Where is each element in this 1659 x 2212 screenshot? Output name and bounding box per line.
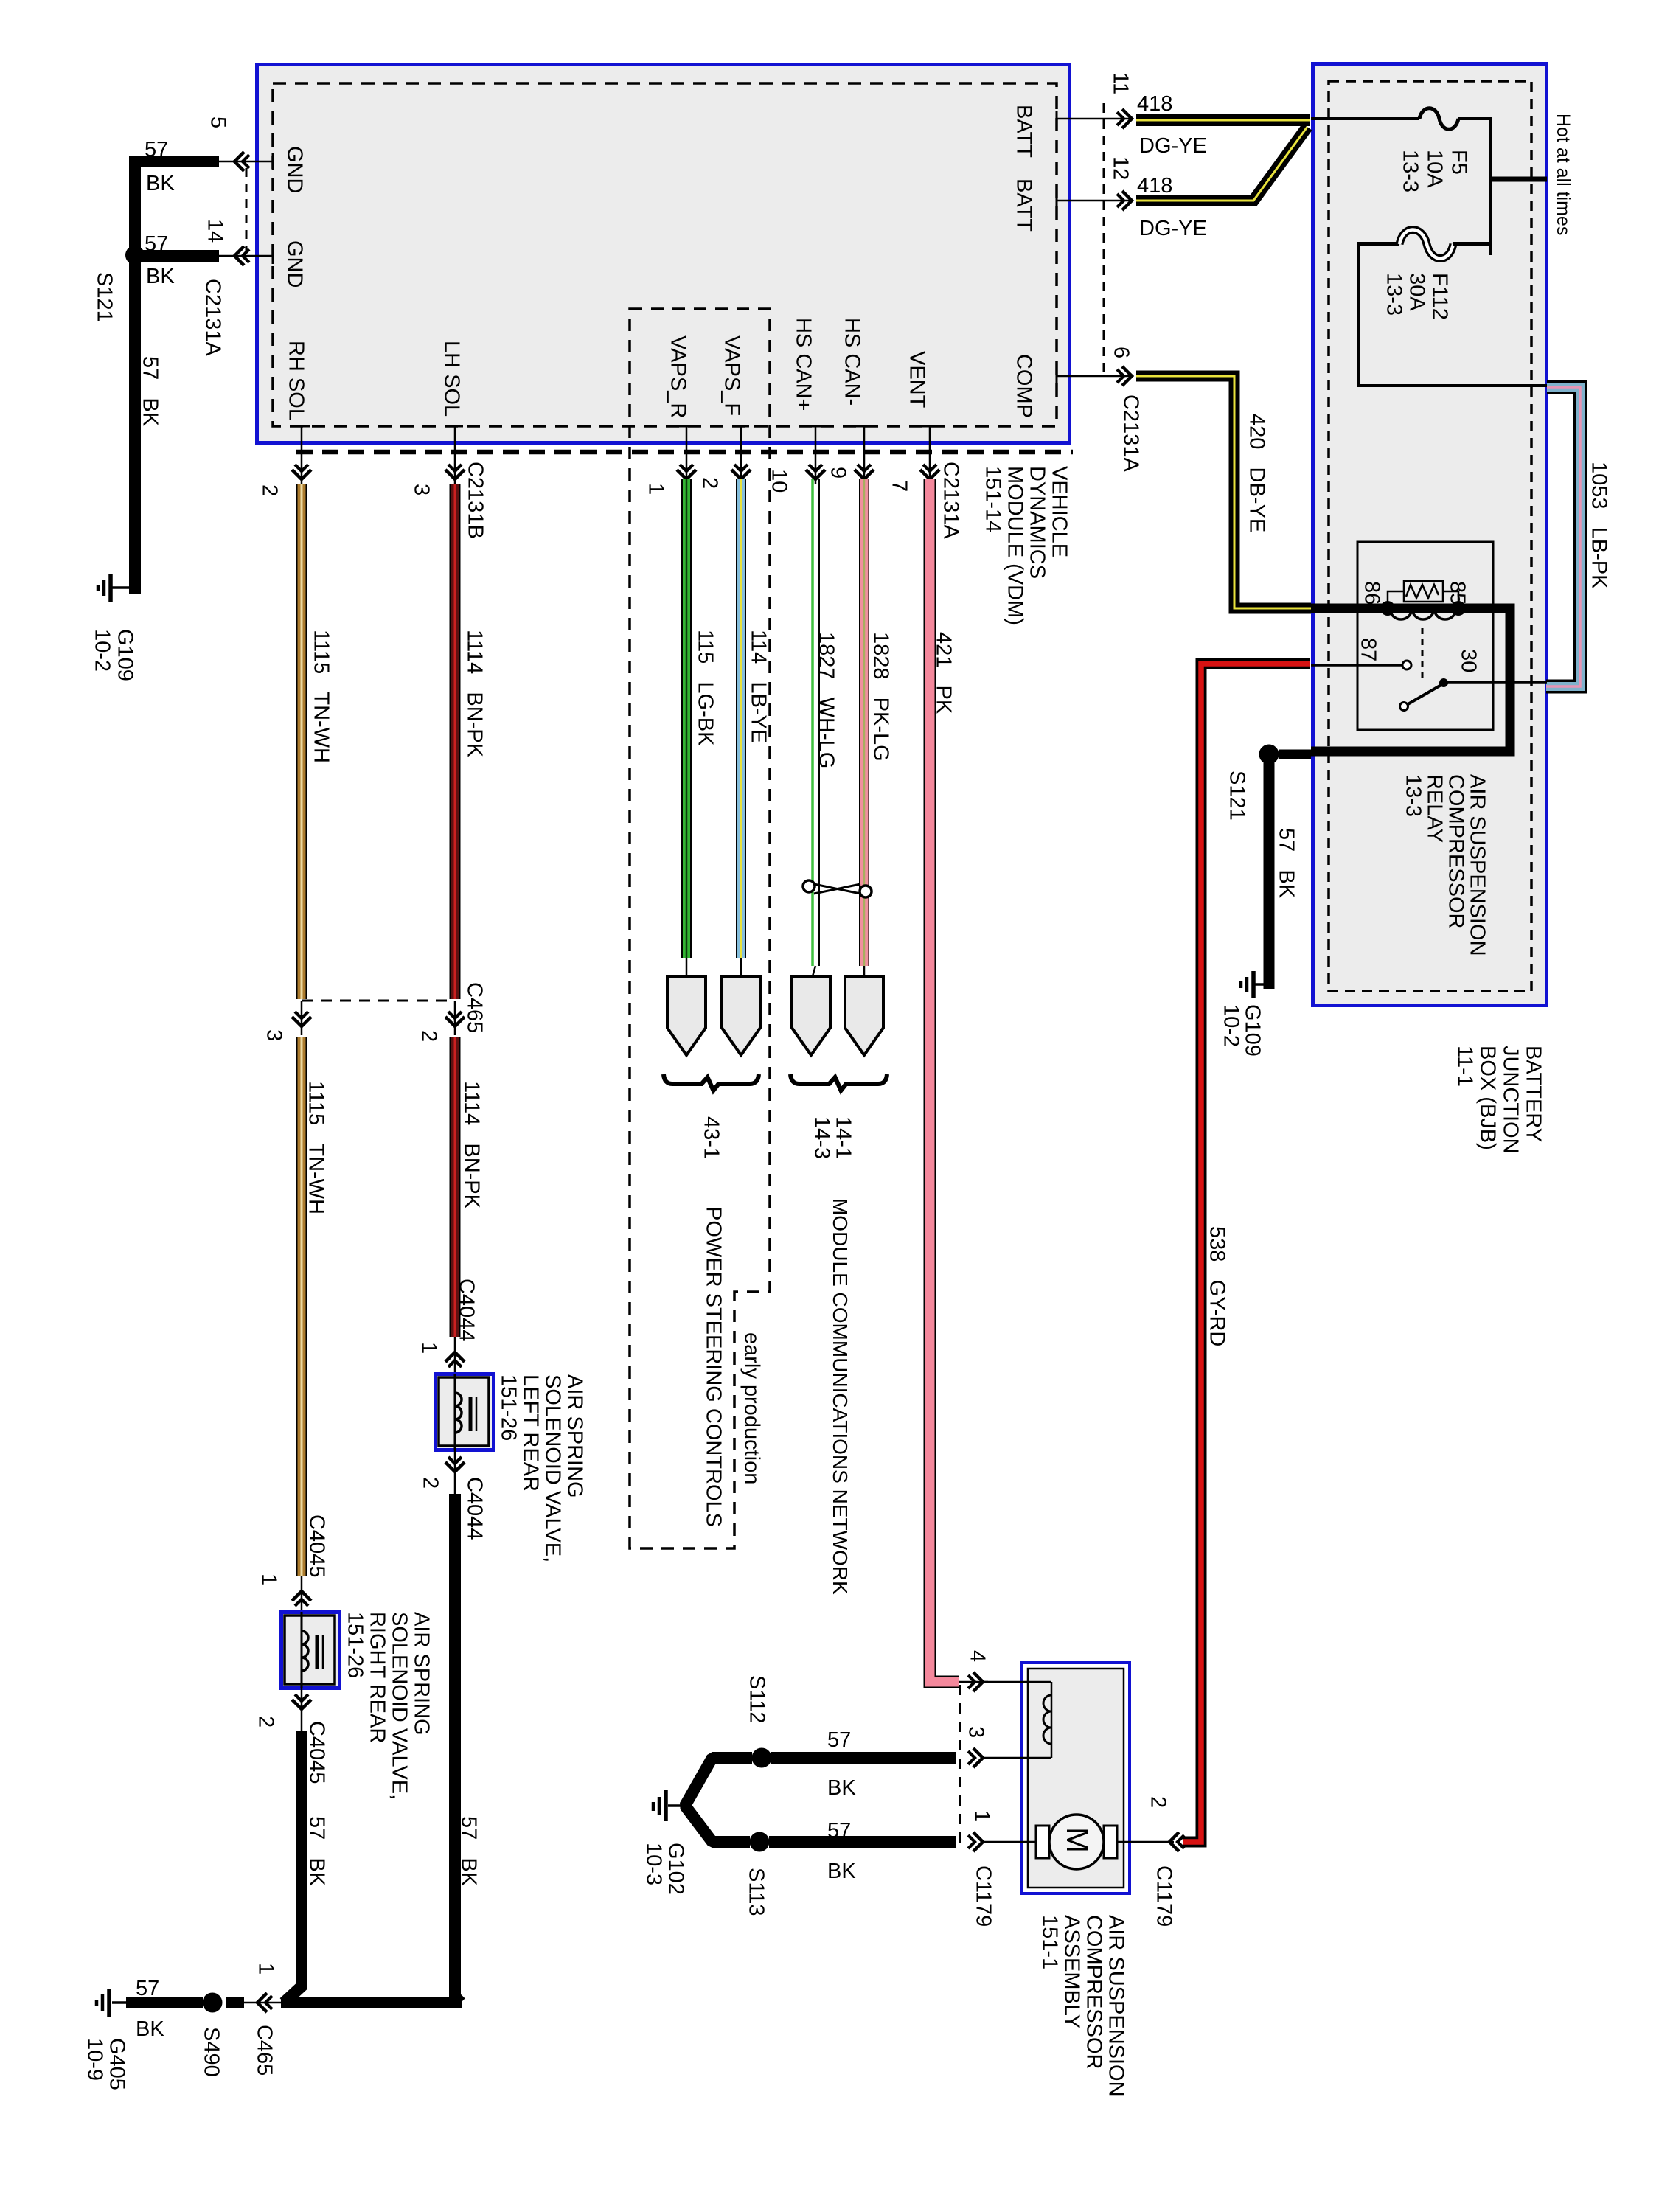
wire 1053 LB-PK xyxy=(1546,387,1611,686)
fuse F112 30A xyxy=(1359,230,1491,320)
svg-text:538 GY-RD: 538 GY-RD xyxy=(1206,1226,1229,1346)
terminal VAPS_F xyxy=(740,958,742,976)
module VDM box (Vehicle Dynamics Module) xyxy=(257,65,1070,443)
wire 57 BK from pin 5 xyxy=(135,161,219,255)
svg-text:1827 WH-LG: 1827 WH-LG xyxy=(815,632,838,768)
svg-text:BATT: BATT xyxy=(1012,105,1036,158)
svg-text:3: 3 xyxy=(410,484,434,495)
svg-text:DG-YE: DG-YE xyxy=(1139,134,1207,158)
svg-text:3: 3 xyxy=(964,1726,988,1738)
svg-text:4: 4 xyxy=(966,1650,990,1662)
svg-text:C1179: C1179 xyxy=(1152,1865,1176,1927)
svg-text:57: 57 xyxy=(145,138,168,161)
svg-text:BK: BK xyxy=(136,2017,164,2041)
svg-text:30: 30 xyxy=(1457,649,1481,672)
svg-text:S121: S121 xyxy=(1225,771,1249,821)
wire from F112 to 1053 xyxy=(1359,242,1547,386)
svg-text:1: 1 xyxy=(970,1810,994,1822)
connector C465 arrow at S490 xyxy=(244,1963,281,2076)
svg-text:BATT: BATT xyxy=(1012,178,1036,232)
svg-text:C2131B: C2131B xyxy=(464,462,487,539)
svg-text:2: 2 xyxy=(1147,1796,1170,1808)
ground G109 (BJB) xyxy=(1220,971,1265,1057)
svg-text:1: 1 xyxy=(257,1573,281,1585)
svg-text:14: 14 xyxy=(204,219,227,243)
wire 57 BK horizontal to S490 xyxy=(281,1997,462,2008)
wire 420 DB-YE from COMP to relay xyxy=(1136,376,1311,608)
svg-text:2: 2 xyxy=(419,1477,442,1489)
terminal VAPS_R xyxy=(686,958,688,976)
wire 538 GY-RD from relay 87 to compressor xyxy=(1183,664,1310,1842)
splice S121 at BJB xyxy=(1225,745,1311,821)
splice S490 xyxy=(226,1997,244,2008)
connector C2131A dashed segment at BATT pins xyxy=(1103,103,1105,376)
bracket 43-1 xyxy=(664,1074,759,1091)
connector C4045 pin 1 arrow xyxy=(257,1514,329,1612)
svg-text:1053 LB-PK: 1053 LB-PK xyxy=(1587,462,1611,589)
svg-text:12: 12 xyxy=(1109,156,1133,180)
svg-text:5: 5 xyxy=(206,116,230,128)
svg-text:1115 TN-WH: 1115 TN-WH xyxy=(305,1081,328,1214)
svg-text:S113: S113 xyxy=(745,1868,768,1916)
wire to hot bus xyxy=(1489,117,1492,255)
connector C1179 pin 2 arrow xyxy=(1117,1796,1184,1927)
pin 3 LH SOL stub + arrow xyxy=(410,426,487,539)
connector C1179 pin 3 arrow + wire 57 BK to S112 xyxy=(771,1726,1051,1800)
svg-text:VAPS_F: VAPS_F xyxy=(720,335,744,416)
bracket 14-1 14-3 xyxy=(790,1074,887,1091)
svg-text:87: 87 xyxy=(1357,638,1380,661)
wire 114 LB-YE xyxy=(736,479,746,958)
connector C2131A dashed segment at GND pins xyxy=(246,168,248,251)
wire 418 DG-YE pin 11 xyxy=(1136,92,1310,158)
svg-text:57 BK: 57 BK xyxy=(139,356,162,427)
wire 1828 PK-LG xyxy=(859,479,869,966)
svg-text:C4045: C4045 xyxy=(305,1514,329,1577)
svg-text:11: 11 xyxy=(1109,72,1133,94)
svg-text:9: 9 xyxy=(827,467,850,479)
svg-text:1114 BN-PK: 1114 BN-PK xyxy=(463,630,487,758)
svg-text:VAPS_R: VAPS_R xyxy=(667,335,690,418)
wire 57 BK from left rear valve xyxy=(455,1494,461,2003)
svg-text:C4044: C4044 xyxy=(455,1279,479,1341)
svg-text:57: 57 xyxy=(136,1977,159,2000)
relay coil xyxy=(1360,581,1470,619)
svg-text:421 PK: 421 PK xyxy=(932,632,956,714)
connector C1179 dashed line xyxy=(959,1685,961,1845)
svg-text:C4045: C4045 xyxy=(305,1721,329,1784)
svg-text:85: 85 xyxy=(1446,581,1470,605)
svg-text:418: 418 xyxy=(1137,174,1172,198)
svg-text:57: 57 xyxy=(145,232,168,256)
pin 6 COMP stub + arrow xyxy=(1057,347,1143,472)
svg-text:S121: S121 xyxy=(93,272,116,322)
ground G109 xyxy=(91,574,137,681)
wire 1114 BN-PK lower xyxy=(450,1037,461,1337)
VDM pin labels xyxy=(283,105,1036,420)
svg-text:C2131A: C2131A xyxy=(939,462,963,539)
terminal HS CAN+ xyxy=(813,966,815,976)
svg-text:114 LB-YE: 114 LB-YE xyxy=(747,630,771,743)
svg-text:2: 2 xyxy=(254,1716,278,1728)
twisted pair symbol xyxy=(803,880,872,897)
connector C465 dashed line + arrows xyxy=(262,982,487,1042)
pin 12 BATT stub + arrow xyxy=(1057,156,1133,210)
wire 57 BK to G109 (BJB) xyxy=(1264,754,1275,989)
svg-text:BK: BK xyxy=(827,1776,856,1800)
box BJB (Battery Junction Box) xyxy=(1313,64,1547,1006)
connector C1179 pin 4 arrow xyxy=(959,1650,990,1691)
svg-text:1115 TN-WH: 1115 TN-WH xyxy=(310,630,333,763)
terminal HS CAN- xyxy=(863,966,866,976)
svg-text:BK: BK xyxy=(827,1860,856,1883)
svg-text:57 BK: 57 BK xyxy=(457,1816,481,1887)
wire 1827 WH-LG xyxy=(813,479,819,966)
relay coil feed wire xyxy=(1311,608,1510,751)
pin 14 GND wire stub + arrow xyxy=(204,219,273,265)
svg-text:S112: S112 xyxy=(745,1675,769,1724)
svg-text:C2131A: C2131A xyxy=(201,279,225,356)
pin 1 VAPS_R stub + arrow xyxy=(644,426,696,495)
wire 57 BK from right rear valve xyxy=(284,1731,302,2003)
wire 1115 TN-WH lower xyxy=(296,1037,307,1576)
svg-text:C465: C465 xyxy=(253,2025,276,2076)
svg-text:1828 PK-LG: 1828 PK-LG xyxy=(869,632,893,762)
svg-text:2: 2 xyxy=(417,1030,441,1042)
splice S112 xyxy=(752,1748,772,1768)
svg-text:43-1: 43-1 xyxy=(700,1116,723,1159)
svg-text:1: 1 xyxy=(644,483,668,495)
wire 421 PK xyxy=(930,479,959,1682)
svg-text:C4044: C4044 xyxy=(463,1477,487,1540)
pin ticks xyxy=(273,111,1057,426)
svg-text:GND: GND xyxy=(283,240,307,288)
relay armature 30 xyxy=(1400,628,1548,711)
svg-text:418: 418 xyxy=(1137,92,1172,116)
pin 2 RH SOL stub + arrow xyxy=(258,426,311,496)
svg-text:115 LG-BK: 115 LG-BK xyxy=(694,630,717,746)
svg-text:1114 BN-PK: 1114 BN-PK xyxy=(460,1081,484,1209)
wire 418 DG-YE pin 12 xyxy=(1136,127,1307,240)
svg-text:Hot at all times: Hot at all times xyxy=(1553,114,1573,235)
wire 1115 TN-WH upper xyxy=(296,484,307,999)
svg-text:HS CAN+: HS CAN+ xyxy=(792,318,815,411)
svg-text:57 BK: 57 BK xyxy=(1275,828,1298,899)
svg-text:C2131A: C2131A xyxy=(1119,394,1143,472)
wires to ground G102 xyxy=(685,1758,752,1842)
connector C2131 heavy dashed line under VDM xyxy=(296,450,1073,455)
svg-text:COMP: COMP xyxy=(1012,354,1036,418)
wire 57 BK down to G109 xyxy=(129,255,141,594)
svg-text:10: 10 xyxy=(768,469,791,493)
splice S121 xyxy=(125,246,145,265)
svg-text:VENT: VENT xyxy=(905,351,929,408)
svg-text:7: 7 xyxy=(888,480,911,492)
pin 10 HS CAN+ stub + arrow xyxy=(768,426,825,493)
ground G405 xyxy=(83,1989,129,2090)
svg-text:14-114-3: 14-114-3 xyxy=(810,1116,855,1159)
compressor assembly box xyxy=(1022,1663,1130,1893)
svg-text:early production: early production xyxy=(740,1332,764,1484)
svg-text:1: 1 xyxy=(254,1963,278,1975)
svg-text:420 DB-YE: 420 DB-YE xyxy=(1245,414,1269,532)
compressor motor M xyxy=(1036,1815,1117,1869)
svg-text:C1179: C1179 xyxy=(972,1865,995,1927)
svg-text:57: 57 xyxy=(827,1728,851,1752)
svg-text:6: 6 xyxy=(1110,347,1133,358)
solenoid valve left rear xyxy=(436,1374,494,1450)
svg-text:BK: BK xyxy=(146,172,175,195)
svg-text:DG-YE: DG-YE xyxy=(1139,217,1207,240)
splice S113 xyxy=(750,1832,770,1852)
pin 9 HS CAN- stub + arrow xyxy=(827,426,874,484)
svg-text:2: 2 xyxy=(258,484,282,496)
svg-text:GND: GND xyxy=(283,146,307,193)
svg-text:86: 86 xyxy=(1360,581,1384,605)
pin 2 VAPS_F stub + arrow xyxy=(698,426,751,489)
svg-text:1: 1 xyxy=(417,1342,441,1354)
ground G102 xyxy=(642,1790,688,1895)
fuse F5 10A xyxy=(1311,108,1491,192)
compressor solenoid coil xyxy=(981,1682,1051,1758)
connector C1179 pin 1 arrow + wire 57 BK to S113 xyxy=(769,1810,1036,1927)
wire 115 LG-BK xyxy=(681,479,692,958)
wire 57 BK to G405 xyxy=(126,1997,203,2008)
svg-text:3: 3 xyxy=(262,1029,286,1041)
connector C4044 pin 2 arrow xyxy=(419,1450,487,1540)
wire 1114 BN-PK upper xyxy=(450,484,461,999)
relay box xyxy=(1357,542,1493,730)
pin 11 BATT stub + arrow xyxy=(1057,72,1133,128)
svg-text:2: 2 xyxy=(698,477,722,489)
svg-text:57: 57 xyxy=(827,1819,851,1843)
svg-text:LH SOL: LH SOL xyxy=(440,341,464,417)
connector C4045 pin 2 arrow xyxy=(254,1688,329,1784)
svg-text:MODULE COMMUNICATIONS NETWORK: MODULE COMMUNICATIONS NETWORK xyxy=(829,1198,852,1595)
svg-text:HS CAN-: HS CAN- xyxy=(841,318,864,406)
svg-text:57 BK: 57 BK xyxy=(305,1816,329,1887)
pin 7 VENT stub + arrow xyxy=(888,426,963,539)
solenoid valve right rear xyxy=(282,1612,340,1688)
wire 57 BK from pin 14 xyxy=(140,250,219,262)
svg-text:M: M xyxy=(1060,1827,1095,1853)
svg-text:RH SOL: RH SOL xyxy=(285,341,308,420)
svg-text:S490: S490 xyxy=(200,2027,223,2077)
svg-text:BK: BK xyxy=(146,265,175,288)
svg-text:C465: C465 xyxy=(463,982,487,1033)
connector C4044 pin 1 arrow xyxy=(417,1279,479,1374)
pin 5 GND wire stub + arrow xyxy=(206,116,273,171)
dashed region power steering controls / vaps xyxy=(630,309,770,1548)
relay contact 87 xyxy=(1311,638,1411,669)
svg-text:POWER STEERING CONTROLS: POWER STEERING CONTROLS xyxy=(702,1206,726,1527)
